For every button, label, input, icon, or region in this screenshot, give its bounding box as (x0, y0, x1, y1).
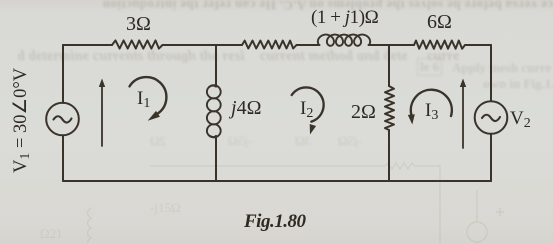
wire before inductor (297, 44, 320, 46)
resistor (1+j1) real part (242, 41, 297, 49)
wire after inductor to node C (369, 44, 415, 46)
source V1 (46, 103, 79, 136)
bleed-through boxed example tag (417, 58, 442, 76)
arrowhead I3 (408, 114, 415, 124)
wire node B branch upper (215, 45, 217, 87)
svg-text:I3: I3 (425, 100, 438, 123)
mesh 3 direction arrow (next to V2) (462, 84, 464, 148)
source V2 (475, 101, 508, 134)
arrowhead I2 (310, 124, 316, 135)
wire right branch lower (490, 134, 492, 181)
resistor 3ohm (112, 40, 163, 48)
wire left branch upper (62, 45, 64, 103)
bleed-through sentence line (16, 49, 462, 65)
mesh current I1 arc (130, 77, 167, 113)
svg-text:3Ω: 3Ω (126, 13, 151, 35)
bottom wire (63, 180, 491, 182)
wire node C branch lower (388, 130, 390, 181)
arrowhead I1 (148, 111, 160, 121)
mesh 1 direction arrow (next to V1) (101, 84, 103, 146)
inductor (1+j1) imaginary part (318, 35, 370, 46)
svg-text:I2: I2 (300, 98, 313, 121)
svg-text:j4Ω: j4Ω (228, 97, 261, 119)
bleed-through header line (upside-down) (0, 0, 553, 13)
resistor 2ohm (385, 86, 394, 130)
svg-text:2Ω: 2Ω (351, 101, 376, 123)
svg-text:I1: I1 (137, 88, 150, 111)
mesh current I2 arc (292, 87, 324, 121)
svg-text:(1 + j1)Ω: (1 + j1)Ω (311, 7, 379, 28)
wire node B branch lower (215, 136, 217, 181)
mesh current I3 arc (411, 90, 452, 116)
bleed-through mirrored component values mid page (150, 133, 166, 149)
svg-text:V1 = 30∠0°V: V1 = 30∠0°V (11, 67, 33, 173)
resistor 6ohm (414, 41, 465, 49)
arrowhead mesh3 arrow (460, 79, 466, 88)
svg-text:Fig.1.80: Fig.1.80 (243, 211, 306, 232)
wire top middle segment through node B (163, 44, 243, 46)
wire left branch lower (62, 136, 64, 182)
wire top right corner (465, 44, 491, 46)
arrowhead mesh1 arrow (99, 79, 105, 88)
inductor j4 (207, 85, 221, 98)
wire right branch upper (490, 45, 492, 101)
bleed-through apply mesh (452, 60, 551, 76)
svg-text:V2: V2 (510, 108, 531, 131)
wire node C branch upper (388, 45, 390, 86)
svg-text:6Ω: 6Ω (427, 11, 452, 33)
wire top-left segment (63, 44, 112, 46)
bleed-through fig ref (483, 76, 553, 92)
